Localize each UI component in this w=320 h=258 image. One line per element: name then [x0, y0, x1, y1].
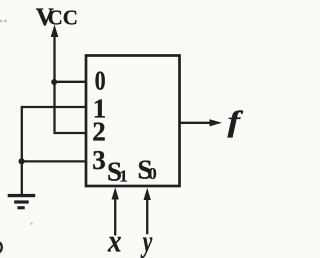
svg-text:0: 0	[95, 66, 106, 96]
svg-text:0: 0	[148, 164, 157, 183]
svg-text:x: x	[107, 222, 121, 258]
svg-text:y: y	[140, 223, 152, 258]
svg-text:2: 2	[92, 116, 106, 146]
svg-text:1: 1	[119, 167, 128, 186]
svg-text:3: 3	[92, 145, 106, 175]
svg-text:CC: CC	[48, 6, 78, 30]
